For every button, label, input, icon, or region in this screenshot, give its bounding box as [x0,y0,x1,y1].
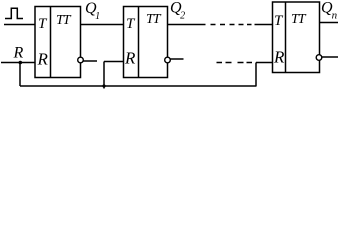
svg-text:R: R [273,48,285,67]
wire Qn output [320,22,338,24]
wire CP input [4,24,35,26]
bubble FF3 Qbar [316,55,322,61]
clock pulse symbol [5,8,23,18]
wire R input [1,62,35,64]
wire R riser 1 [19,63,21,87]
svg-text:TT: TT [146,12,162,27]
node junction dot bus-riser2 [102,84,105,87]
wire FF3 R input [256,62,273,64]
bubble FF2 Qbar [165,57,171,63]
svg-text:TT: TT [291,12,307,27]
wire R riser 2 [103,62,105,89]
flip-flop FF2 box [124,7,168,78]
wire FF3 divider [285,2,287,73]
wire FF2 divider [138,7,140,78]
svg-text:R: R [37,50,49,69]
flip-flop FF1 box [35,7,81,78]
wire FF3 Qbar stub [322,56,338,58]
wire FF1 divider [50,7,52,78]
wire Q2 output solid [168,24,206,26]
flip-flop FF3 box [273,2,320,73]
wire Q1 output to FF2 [81,24,124,26]
wire R bottom bus [20,85,257,87]
wire R dashed continuation [217,62,253,64]
wire T input of FF3 solid [255,24,273,26]
wire Q2 dashed continuation [211,24,252,26]
wire FF1 Qbar stub [83,60,97,62]
svg-text:R: R [13,45,24,62]
svg-text:R: R [124,49,136,68]
svg-text:TT: TT [56,13,72,28]
bubble FF1 Qbar [78,57,84,63]
wire R riser 3 [255,63,257,87]
node junction dot R [19,61,23,65]
wire FF2 R input [104,61,124,63]
wire FF2 Qbar stub [170,58,183,60]
